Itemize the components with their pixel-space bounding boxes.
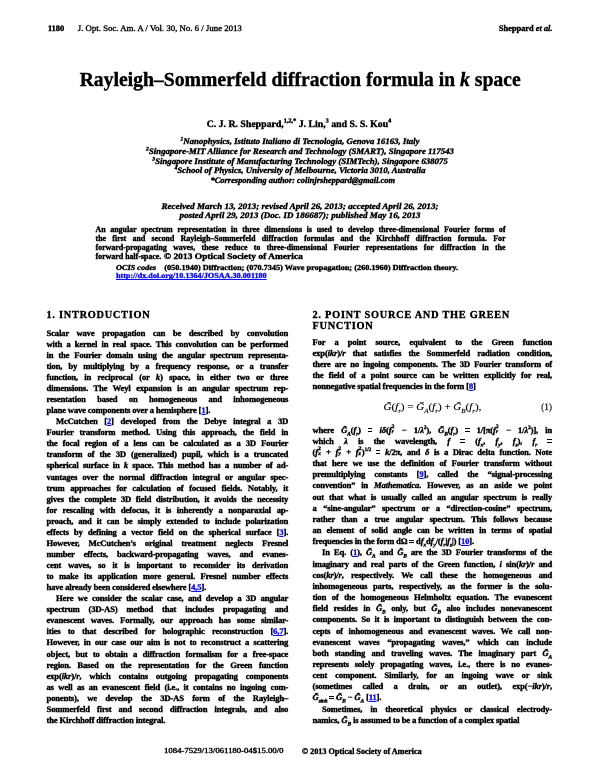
right column body part 2 [313, 425, 553, 726]
section heading 1. INTRODUCTION [47, 310, 151, 321]
footer copyright [302, 747, 428, 756]
DOI link [116, 272, 253, 281]
footer fee code [164, 747, 260, 755]
section heading 2. POINT SOURCE AND THE GREEN FUNCTION [313, 310, 553, 332]
equation 1 [313, 402, 553, 414]
authors [2, 120, 594, 130]
abstract [96, 226, 506, 262]
OCIS codes line [116, 264, 516, 273]
title [3, 70, 594, 90]
received dates [0, 202, 594, 221]
header left: page number and journal info [48, 24, 242, 33]
affiliations [0, 137, 594, 185]
header right: running authors [496, 24, 552, 33]
right column body part 1 [313, 337, 553, 392]
left column body [47, 328, 289, 726]
